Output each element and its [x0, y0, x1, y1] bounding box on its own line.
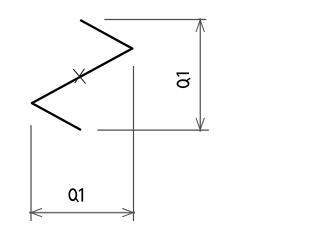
zigzag wire form (thick outline): [32, 20, 132, 130]
arrowhead left (left end of horizontal dimension): [29, 208, 42, 216]
arrowhead right (right end of horizontal dimension): [122, 208, 135, 216]
extension line top (from upper end of zigzag): [104, 19, 206, 21]
arrowhead up (top of vertical dimension): [196, 18, 204, 32]
extension line bottom (from lower end of zigzag): [97, 129, 208, 131]
dimension line Q1 vertical: [199, 20, 201, 130]
extension line right vertical (from right vertex): [133, 66, 135, 221]
arrowhead down (bottom of vertical dimension): [196, 118, 204, 132]
label Q1 (horizontal dimension text): [69, 188, 82, 202]
dimension line Q1 horizontal: [31, 212, 134, 214]
extension line left vertical (from left vertex): [30, 125, 32, 221]
label Q1 (vertical dimension text, rotated 90 CCW): [177, 73, 191, 87]
bend mark X on middle segment: [73, 69, 85, 84]
